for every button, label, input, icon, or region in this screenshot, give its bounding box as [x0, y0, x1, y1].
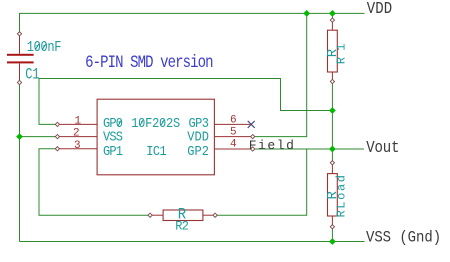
pin name VDD — [187, 129, 209, 145]
no-connect X on pin 6 — [248, 121, 255, 128]
pin 2 VSS — [55, 134, 97, 138]
svg-text:Field: Field — [249, 138, 294, 153]
svg-text:VDD: VDD — [367, 0, 393, 19]
wire R1 column (R1 bottom through Vout node to RLoad top) — [331, 82, 333, 163]
op IC1 10F202S box — [97, 99, 214, 175]
svg-text:1: 1 — [75, 115, 82, 127]
svg-text:GP1: GP1 — [103, 143, 123, 159]
junction at R1 bottom and GP0 wire — [329, 107, 336, 114]
wire RLoad bottom to VSS rail — [331, 227, 333, 242]
junction at Vout node — [329, 146, 336, 153]
junction at VDD rail and pin5 riser — [303, 10, 310, 17]
wire GP2 pin4 Field net to Vout node — [253, 148, 333, 150]
svg-text:4: 4 — [230, 138, 237, 150]
pin 5 VDD — [214, 134, 254, 138]
junction at RLoad bottom and VSS rail — [329, 238, 336, 245]
label C1 — [25, 66, 39, 84]
wire Field branch down to R2 right — [215, 149, 307, 215]
capacitor C1 — [7, 32, 34, 85]
svg-text:6-PIN SMD version: 6-PIN SMD version — [85, 53, 213, 73]
wire VDD top rail — [20, 12, 365, 14]
label R1 — [334, 44, 348, 65]
wire R1 top to VDD rail — [331, 13, 333, 20]
wire GP1 pin3 to R2 left — [39, 149, 150, 215]
svg-text:C1: C1 — [25, 66, 39, 84]
svg-text:RLoad: RLoad — [335, 175, 349, 218]
svg-text:VSS (Gnd): VSS (Gnd) — [366, 230, 441, 247]
label R (RLoad value) — [325, 191, 341, 200]
junction at VDD rail and R1 top — [329, 10, 336, 17]
wire VSS bottom rail — [20, 241, 365, 243]
pin 3 GP1 — [55, 147, 97, 151]
svg-text:100nF: 100nF — [27, 40, 62, 57]
resistor R1 — [328, 18, 338, 84]
wire VDD pin5 riser to top rail — [253, 13, 307, 136]
svg-text:GP2: GP2 — [187, 143, 209, 159]
svg-text:10F202S: 10F202S — [131, 115, 180, 131]
wire left rail lower segment (C1 bottom to VSS rail) — [19, 83, 21, 242]
svg-text:Vout: Vout — [366, 138, 399, 158]
net label Vout — [366, 138, 399, 158]
label RLoad — [335, 175, 349, 218]
svg-text:5: 5 — [230, 127, 237, 139]
pin name GP1 — [103, 143, 123, 159]
pin name VSS — [103, 129, 123, 145]
pin name GP2 — [187, 143, 209, 159]
svg-text:2: 2 — [73, 128, 80, 140]
net label VDD — [367, 0, 393, 19]
label R2 — [175, 219, 189, 234]
svg-text:3: 3 — [74, 140, 81, 152]
label R (R1 value) — [325, 48, 341, 57]
junction at VSS pin2 and left rail — [16, 133, 23, 140]
wire VSS pin2 to left rail — [20, 136, 58, 138]
resistor R2 — [148, 210, 217, 221]
label 100nF — [27, 40, 62, 57]
pin name GP3 — [189, 115, 210, 131]
svg-text:IC1: IC1 — [146, 143, 167, 159]
resistor RLoad — [328, 161, 338, 229]
value 10F202S — [131, 115, 180, 131]
wire GP0 pin1 to R1 bottom node — [39, 79, 332, 125]
svg-text:6: 6 — [230, 115, 237, 127]
pin name GP0 — [103, 115, 123, 131]
net label Field — [249, 138, 294, 153]
pin 6 GP3 — [214, 123, 250, 125]
label R (R2 value) — [178, 205, 186, 224]
wire Vout stub — [332, 148, 364, 150]
name IC1 — [146, 143, 167, 159]
pin 1 GP0 — [55, 122, 97, 126]
net label VSS (Gnd) — [366, 230, 441, 247]
pin 4 GP2 — [214, 147, 254, 151]
wire left rail upper segment (VDD to C1 top) — [19, 13, 21, 34]
svg-text:R2: R2 — [175, 219, 189, 234]
title 6-PIN SMD version — [85, 53, 213, 73]
